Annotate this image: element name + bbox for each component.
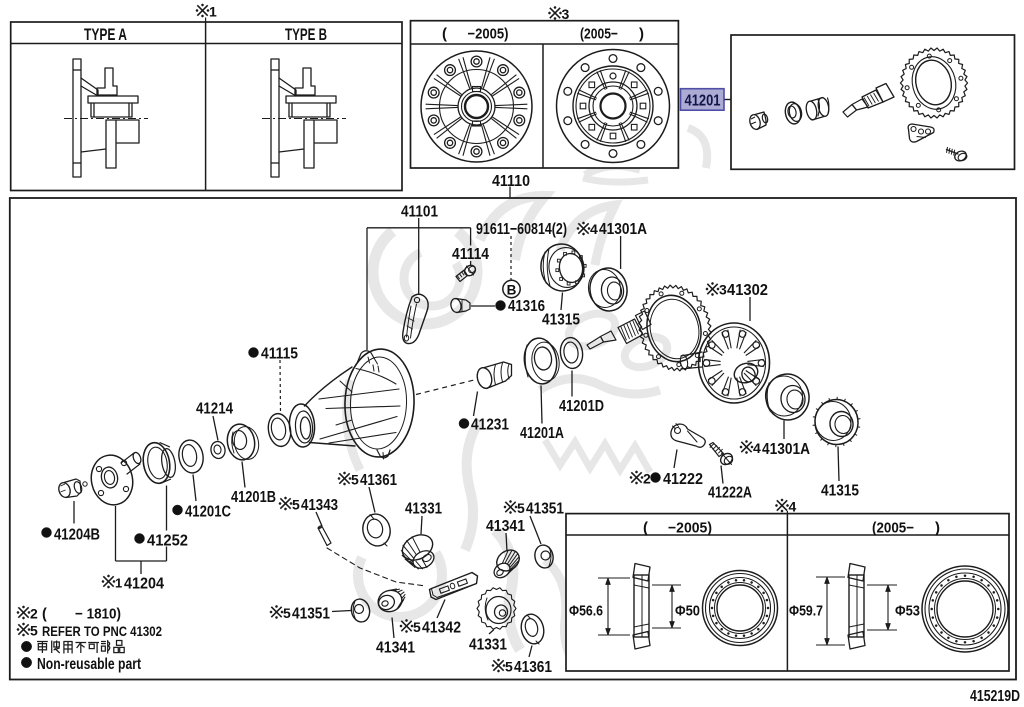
leader 41231 — [474, 392, 478, 417]
svg-text:Φ50: Φ50 — [675, 604, 700, 620]
svg-text:41351: 41351 — [526, 501, 564, 518]
label 41231 — [459, 419, 469, 429]
bearing spacer — [805, 100, 819, 121]
svg-text:Φ59.7: Φ59.7 — [789, 604, 823, 620]
note non-reusable en — [21, 657, 31, 667]
leader 41316 — [471, 305, 495, 307]
rear bearing 41315 upper part — [538, 241, 586, 293]
thrust washer 41351 right part — [533, 543, 555, 569]
svg-text:41361: 41361 — [514, 659, 552, 676]
svg-text:1: 1 — [209, 4, 217, 20]
ring gear (41201) — [900, 48, 967, 118]
pinion gear 41341 left part — [375, 587, 405, 615]
box bearing variants — [566, 514, 1009, 671]
svg-text:41214: 41214 — [196, 401, 233, 418]
leader 91611 dashed — [510, 236, 512, 280]
mark *4 bottom box — [777, 500, 787, 510]
bearing face -2005 — [703, 571, 778, 646]
svg-text:41222A: 41222A — [708, 485, 752, 502]
flange face 2005- (41110) — [557, 50, 670, 163]
leader 41252 + 41204 bracket — [166, 486, 168, 531]
leader 41315 lower — [838, 447, 839, 482]
bearing lock 41222 part — [671, 424, 705, 447]
svg-text:41204: 41204 — [124, 576, 164, 593]
thrust washer 41361 lower part — [518, 612, 547, 646]
housing bottom tab — [377, 450, 390, 458]
svg-text:5: 5 — [292, 497, 300, 513]
oil seal 41115 part — [266, 412, 293, 448]
svg-text:REFER TO PNC 41302: REFER TO PNC 41302 — [42, 623, 162, 639]
leader 41201C — [193, 475, 196, 502]
svg-text:41115: 41115 — [261, 346, 298, 363]
svg-text:4: 4 — [590, 221, 598, 237]
hub flange plate — [73, 59, 81, 177]
leader 41361 bottom — [529, 646, 532, 658]
leader 41101 bracket — [418, 218, 420, 295]
label 41204B — [42, 528, 52, 538]
oil slinger 41201C — [176, 438, 205, 475]
label 41201 highlight — [681, 89, 725, 111]
svg-text:41201C: 41201C — [185, 504, 231, 521]
svg-text:(: ( — [42, 607, 47, 623]
diff case 41302 — [699, 323, 770, 403]
leader 41301A lower — [783, 421, 785, 440]
label *5 41342 — [401, 621, 411, 631]
label *1 41204 — [103, 576, 113, 586]
tick *1 — [205, 18, 207, 23]
leader 41204B — [73, 501, 75, 524]
dashed housing to spacer — [416, 380, 476, 395]
svg-text:Non-reusable part: Non-reusable part — [37, 656, 141, 673]
plate bolt — [947, 150, 959, 155]
svg-text:41110: 41110 — [492, 173, 530, 190]
note non-reusable jp — [21, 641, 31, 651]
pinion nut — [748, 113, 762, 130]
hub lower stem — [106, 120, 116, 168]
mark *3 top — [550, 8, 560, 18]
dim lines left cell — [598, 577, 630, 579]
pinion shaft 41342 part — [430, 573, 478, 600]
hub centerline — [64, 118, 148, 120]
pinion gear 41341 right part — [493, 546, 524, 575]
svg-text:41301A: 41301A — [599, 221, 647, 238]
label *4 41301A upper — [578, 223, 588, 233]
breather plug 41316 part — [450, 298, 463, 314]
housing top tabs — [358, 351, 375, 362]
svg-text:41315: 41315 — [821, 483, 859, 500]
tick *4 — [786, 511, 788, 514]
hub bracket — [97, 68, 117, 95]
companion flange — [87, 451, 137, 508]
svg-text:41331: 41331 — [405, 501, 442, 518]
svg-text:): ) — [639, 26, 644, 43]
side gear 41331 upper part — [398, 530, 437, 565]
dim lines right cell — [816, 576, 845, 578]
svg-text:): ) — [935, 520, 940, 537]
leader 41222A — [721, 466, 723, 484]
leader 41222 — [674, 450, 677, 469]
leader 41214 — [213, 416, 218, 441]
svg-text:TYPE A: TYPE A — [84, 26, 127, 44]
watermark — [347, 128, 708, 665]
box type-a/type-b — [11, 22, 402, 191]
svg-text:41114: 41114 — [452, 246, 489, 263]
bearing 41201B part — [225, 422, 258, 462]
svg-text:41302: 41302 — [727, 282, 768, 299]
hub bracket — [295, 68, 315, 95]
svg-text:5: 5 — [283, 605, 291, 621]
leader 41331 bottom — [489, 630, 494, 635]
leader 41201A — [541, 386, 542, 424]
label 41201C — [173, 505, 183, 515]
svg-text:41351: 41351 — [292, 606, 330, 623]
svg-text:41201D: 41201D — [559, 398, 604, 415]
svg-text:2: 2 — [30, 606, 38, 622]
leader 41201D — [571, 371, 573, 397]
svg-text:41252: 41252 — [147, 533, 188, 550]
svg-text:91611−60814(2): 91611−60814(2) — [476, 221, 567, 238]
leader 41201B — [242, 462, 245, 488]
label *5 41351 left — [271, 607, 281, 617]
leader 41341 bottom — [392, 618, 394, 639]
svg-text:1: 1 — [115, 576, 122, 591]
washer 41214 part — [210, 440, 227, 459]
svg-text:415219D: 415219D — [970, 688, 1020, 705]
label *5 41351 right — [505, 502, 515, 512]
svg-text:5: 5 — [517, 500, 525, 516]
svg-text:− 1810): − 1810) — [75, 607, 121, 623]
svg-text:41204B: 41204B — [54, 527, 100, 544]
svg-text:41315: 41315 — [542, 312, 580, 329]
svg-text:B: B — [507, 283, 517, 298]
hub upper arm — [81, 78, 98, 96]
ring gear 41302 assy — [639, 285, 712, 371]
svg-text:41341: 41341 — [486, 518, 525, 535]
hub body — [286, 96, 336, 117]
hub lower diagonal — [81, 149, 106, 152]
hub lower block — [315, 120, 337, 143]
leader 41361 upper — [369, 487, 375, 513]
front bearing — [783, 101, 802, 126]
pinion shaft tip — [587, 337, 604, 350]
svg-text:3: 3 — [719, 282, 727, 298]
leader 41110 — [509, 187, 511, 198]
hub upper arm — [279, 78, 296, 96]
diff carrier housing — [343, 348, 416, 458]
pinion shaft pin 41343 part — [318, 527, 331, 546]
hub body — [88, 96, 138, 117]
callout B circle — [503, 280, 520, 297]
label 41115 — [249, 348, 259, 358]
bearing cross-section — [849, 575, 864, 637]
svg-text:4: 4 — [753, 440, 761, 456]
svg-text:TYPE B: TYPE B — [285, 26, 327, 44]
svg-text:(2005−: (2005− — [872, 520, 914, 537]
carrier gusset plate — [403, 294, 428, 343]
companion flange nut 41204B part — [57, 481, 72, 499]
svg-text:5: 5 — [505, 659, 513, 675]
svg-text:41342: 41342 — [422, 620, 461, 637]
pinion splines — [618, 319, 643, 344]
label 41252 — [135, 534, 145, 544]
pin dashed path — [327, 548, 426, 586]
svg-text:41343: 41343 — [301, 497, 338, 514]
label 41316 — [496, 301, 506, 311]
thrust washer 41351 left part — [349, 597, 371, 623]
dust deflector 41252 — [140, 441, 173, 486]
leader 41331 upper — [421, 516, 422, 534]
label *2 41222 — [631, 472, 641, 482]
svg-text:5: 5 — [413, 619, 421, 635]
svg-text:41301A: 41301A — [762, 441, 810, 458]
svg-text:41316: 41316 — [508, 298, 545, 315]
note *2 -1810 — [18, 607, 28, 617]
label *5 41361 bottom — [493, 660, 503, 670]
svg-text:−2005): −2005) — [668, 520, 712, 537]
bearing washer 41201D part — [558, 336, 584, 370]
bearing 41301A upper part — [587, 266, 630, 314]
drive pinion shaft — [843, 105, 857, 118]
svg-text:41201A: 41201A — [520, 425, 564, 442]
svg-text:41201: 41201 — [685, 93, 721, 110]
hub centerline — [262, 118, 346, 120]
leader 41115 dashed — [279, 360, 282, 412]
leader 41302 — [749, 297, 751, 321]
svg-text:41231: 41231 — [471, 417, 509, 434]
svg-text:41222: 41222 — [663, 471, 703, 488]
dash to box — [725, 99, 732, 101]
svg-text:41101: 41101 — [401, 204, 438, 221]
leader 41342 — [437, 600, 445, 619]
mark *1 top — [197, 5, 207, 15]
label *4 41301A lower — [741, 442, 751, 452]
leader 41315 upper — [561, 293, 563, 311]
bearing cross-section — [634, 575, 649, 637]
note *5 refer to pnc — [18, 624, 28, 634]
hub flange plate — [271, 59, 279, 177]
flange face -2005 (41110) — [421, 51, 532, 162]
bearing face 2005- — [922, 566, 1008, 652]
lock plate — [908, 124, 934, 142]
leader 41351 right — [530, 516, 541, 544]
svg-text:(: ( — [442, 26, 447, 43]
svg-text:(2005−: (2005− — [580, 26, 618, 43]
box main — [10, 198, 1016, 680]
svg-text:3: 3 — [562, 6, 570, 22]
collapsible spacer 41231 part — [475, 362, 511, 390]
svg-text:41331: 41331 — [469, 637, 507, 654]
leader 41351 left — [332, 611, 351, 612]
label *3 41302 — [707, 284, 717, 294]
leader 41301A upper — [620, 236, 622, 269]
svg-text:5: 5 — [30, 623, 38, 639]
label *5 41361 upper — [339, 473, 349, 483]
hub lower stem — [304, 120, 314, 168]
svg-text:41361: 41361 — [360, 472, 397, 489]
label *5 41343 — [280, 498, 290, 508]
bolt 41114 part — [456, 271, 468, 282]
leader 41341 right — [506, 533, 507, 552]
box 41201 assembly — [731, 35, 1015, 169]
svg-text:41341: 41341 — [376, 640, 415, 657]
bearing race 41315 lower part — [812, 397, 861, 448]
hub lower diagonal — [279, 149, 304, 152]
svg-text:41201B: 41201B — [231, 489, 276, 506]
side bearing 41301A lower part — [763, 371, 812, 423]
svg-text:−2005): −2005) — [468, 26, 509, 43]
box 41110 variants — [411, 21, 679, 168]
side gear 41331 lower part — [477, 588, 516, 629]
svg-text:(: ( — [643, 520, 648, 537]
diff case hub — [731, 360, 760, 386]
svg-text:4: 4 — [789, 499, 797, 515]
front pinion bearing 41201A part — [521, 336, 559, 386]
lock bolt 41222A part — [710, 443, 724, 457]
svg-text:Φ53: Φ53 — [895, 604, 920, 620]
svg-text:5: 5 — [351, 472, 359, 488]
svg-text:2: 2 — [643, 471, 651, 487]
thrust washer 41361 upper part — [360, 511, 394, 549]
hub lower block — [117, 120, 139, 143]
svg-text:Φ56.6: Φ56.6 — [569, 604, 603, 620]
leader 41343 — [316, 512, 322, 526]
